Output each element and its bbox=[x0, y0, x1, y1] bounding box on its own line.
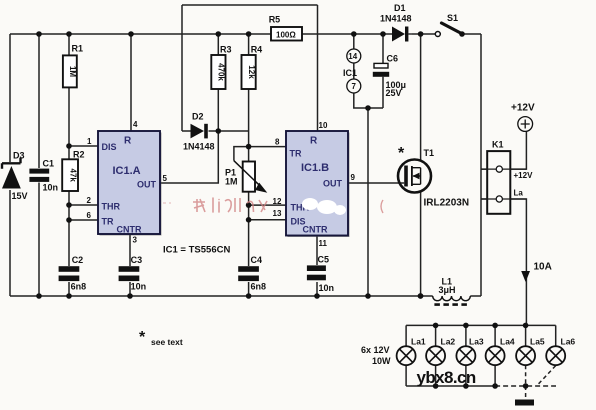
svg-text:10W: 10W bbox=[372, 356, 391, 366]
svg-text:3μH: 3μH bbox=[439, 285, 456, 295]
resistor R4 bbox=[242, 45, 263, 90]
pin numbers IC1.A bbox=[87, 120, 168, 245]
wire pin6 TR bbox=[69, 219, 98, 221]
wire C1 column bbox=[38, 34, 40, 296]
wire ground column from C6 bbox=[367, 108, 369, 296]
svg-text:+12V: +12V bbox=[514, 171, 534, 180]
svg-text:IC1 = TS556CN: IC1 = TS556CN bbox=[163, 245, 230, 256]
wire S1 to K1 feed column bbox=[480, 34, 482, 296]
see text note bbox=[139, 329, 183, 347]
svg-text:La5: La5 bbox=[530, 337, 545, 347]
svg-text:25V: 25V bbox=[386, 88, 402, 98]
svg-text:C6: C6 bbox=[387, 54, 399, 64]
lamp La6 bbox=[546, 337, 575, 366]
capacitor C2 bbox=[59, 255, 87, 292]
svg-text:THR: THR bbox=[102, 202, 121, 212]
wire pin3 CNTR to C3 bbox=[129, 235, 131, 297]
wire bottom ground rail bbox=[10, 295, 421, 297]
svg-text:C4: C4 bbox=[251, 255, 263, 265]
svg-text:R3: R3 bbox=[220, 45, 232, 55]
svg-text:ybx8.cn: ybx8.cn bbox=[417, 368, 476, 387]
svg-text:CNTR: CNTR bbox=[117, 225, 142, 235]
svg-text:R5: R5 bbox=[269, 15, 281, 25]
svg-text:R: R bbox=[124, 136, 132, 147]
svg-text:TR: TR bbox=[102, 217, 114, 227]
svg-text:C2: C2 bbox=[72, 255, 84, 265]
svg-text:12: 12 bbox=[273, 197, 282, 206]
lamp La4 bbox=[486, 337, 515, 366]
+12V supply terminal bbox=[511, 103, 535, 132]
wire R1 R2 column bbox=[68, 34, 70, 296]
svg-text:1M: 1M bbox=[225, 177, 238, 187]
capacitor C4 bbox=[238, 255, 266, 292]
IC1 power pin bubbles bbox=[343, 49, 361, 93]
svg-text:6n8: 6n8 bbox=[251, 282, 267, 292]
svg-text:1N4148: 1N4148 bbox=[183, 142, 215, 152]
inductor L1 bbox=[433, 277, 471, 305]
svg-text:1M: 1M bbox=[68, 66, 77, 77]
lamp La1 bbox=[397, 337, 426, 366]
wire pin13 DIS and C4 column bbox=[249, 205, 286, 296]
svg-text:see text: see text bbox=[151, 337, 183, 347]
svg-text:S1: S1 bbox=[447, 13, 458, 23]
wire K1 tap La bbox=[481, 199, 526, 325]
pin numbers IC1.B bbox=[273, 121, 356, 248]
svg-text:R1: R1 bbox=[72, 44, 84, 54]
svg-text:R4: R4 bbox=[251, 45, 263, 55]
wire vertical reset rail to IC1.B pin 10 bbox=[317, 5, 319, 131]
wire lamp stubs top bbox=[406, 325, 556, 346]
wire dashed to ground bbox=[525, 386, 527, 399]
svg-text:4: 4 bbox=[133, 120, 138, 129]
capacitor C1 bbox=[29, 159, 58, 193]
wire IC1.B OUT to gate bbox=[348, 182, 404, 184]
svg-text:1N4148: 1N4148 bbox=[380, 14, 412, 24]
resistor R2 bbox=[62, 149, 84, 191]
svg-text:3: 3 bbox=[133, 236, 138, 245]
wire T1 drain up bbox=[420, 34, 422, 160]
svg-text:14: 14 bbox=[348, 52, 357, 61]
svg-text:10: 10 bbox=[319, 121, 328, 130]
svg-text:D1: D1 bbox=[394, 3, 406, 13]
wire vertical from reset rail to D2 anode bbox=[181, 5, 183, 131]
svg-text:10n: 10n bbox=[319, 283, 335, 293]
wire upper reset rail bbox=[182, 4, 318, 6]
lamp bank rating label bbox=[361, 345, 391, 366]
svg-text:470k: 470k bbox=[217, 63, 226, 81]
diode D1 bbox=[380, 3, 412, 42]
svg-text:C1: C1 bbox=[43, 159, 55, 169]
op-amp IC1.A timer block bbox=[98, 131, 162, 236]
wire pin14 pin7 column bbox=[354, 34, 383, 108]
svg-text:OUT: OUT bbox=[323, 179, 343, 189]
svg-text:La2: La2 bbox=[441, 337, 456, 347]
transistor T1 MOSFET bbox=[398, 145, 469, 209]
wire pin8 TR bbox=[249, 146, 286, 148]
op-amp IC1.B timer block bbox=[286, 131, 350, 237]
svg-text:T1: T1 bbox=[424, 148, 435, 158]
watermark red marks bbox=[163, 198, 383, 213]
svg-text:6n8: 6n8 bbox=[71, 282, 87, 292]
svg-text:CNTR: CNTR bbox=[303, 225, 328, 235]
capacitor C6 electrolytic bbox=[373, 54, 406, 99]
svg-text:7: 7 bbox=[352, 82, 357, 91]
svg-text:6x 12V: 6x 12V bbox=[361, 345, 390, 355]
svg-text:K1: K1 bbox=[492, 140, 504, 150]
wire T1 source down bbox=[420, 193, 422, 297]
svg-text:*: * bbox=[139, 329, 146, 346]
junction dots middle bbox=[66, 105, 371, 223]
potentiometer P1 bbox=[225, 161, 267, 193]
lamp La5 bbox=[516, 337, 545, 366]
capacitor C3 bbox=[119, 255, 147, 292]
svg-text:13: 13 bbox=[273, 209, 282, 218]
svg-text:R: R bbox=[310, 136, 318, 147]
junction dots lamps bbox=[433, 323, 529, 389]
svg-text:6: 6 bbox=[87, 211, 92, 220]
resistor R3 bbox=[211, 45, 231, 90]
svg-text:10A: 10A bbox=[534, 262, 552, 273]
svg-text:IC1.B: IC1.B bbox=[301, 162, 329, 174]
svg-text:*: * bbox=[398, 145, 405, 162]
wire lamp stubs bottom solid bbox=[406, 365, 495, 386]
svg-text:12k: 12k bbox=[247, 65, 256, 79]
wire lamps top rail bbox=[406, 324, 556, 326]
svg-text:C3: C3 bbox=[131, 255, 143, 265]
svg-text:2: 2 bbox=[87, 196, 92, 205]
diode D2 bbox=[183, 112, 215, 152]
wire pin11 to C5 bbox=[316, 236, 318, 296]
svg-text:IRL2203N: IRL2203N bbox=[424, 198, 470, 209]
svg-text:15V: 15V bbox=[12, 191, 28, 201]
svg-text:5: 5 bbox=[163, 174, 168, 183]
svg-text:1: 1 bbox=[87, 137, 92, 146]
switch S1 bbox=[435, 13, 465, 37]
svg-text:9: 9 bbox=[351, 173, 356, 182]
zener diode D3 bbox=[2, 151, 28, 202]
resistor R1 bbox=[63, 44, 83, 88]
ground bar bbox=[515, 400, 534, 406]
watermark white blobs bbox=[302, 198, 346, 215]
svg-text:8: 8 bbox=[275, 138, 280, 147]
wire left supply column with D3 bbox=[9, 34, 11, 296]
wire La6 dashed diagonal bbox=[537, 366, 556, 386]
svg-text:+12V: +12V bbox=[511, 103, 535, 114]
svg-text:10n: 10n bbox=[131, 282, 147, 292]
svg-text:OUT: OUT bbox=[137, 180, 157, 190]
svg-text:La6: La6 bbox=[561, 337, 576, 347]
wire pin12 THR bbox=[249, 204, 286, 206]
wire IC1.A OUT to D2 node bbox=[161, 131, 219, 183]
svg-text:D3: D3 bbox=[13, 151, 25, 161]
svg-text:D2: D2 bbox=[192, 112, 204, 122]
svg-text:C5: C5 bbox=[318, 255, 330, 265]
connector K1 bbox=[481, 140, 533, 214]
wire lamps bottom rail dashed bbox=[495, 385, 556, 387]
wire P1 top and bottom leads bbox=[248, 147, 250, 206]
10A current arrow bbox=[521, 262, 552, 283]
lamp La2 bbox=[426, 337, 455, 366]
junction dots top rail bbox=[36, 31, 423, 37]
wire pin1 DIS bbox=[69, 145, 98, 147]
capacitor C5 bbox=[307, 255, 334, 294]
lamp La3 bbox=[456, 337, 484, 366]
svg-text:La4: La4 bbox=[500, 337, 515, 347]
svg-text:IC1: IC1 bbox=[343, 68, 357, 78]
svg-text:DIS: DIS bbox=[102, 142, 117, 152]
wire P1 wiper bend bbox=[234, 147, 249, 161]
junction dots bottom rail bbox=[36, 293, 423, 299]
svg-text:10n: 10n bbox=[43, 183, 59, 193]
svg-text:47k: 47k bbox=[68, 169, 77, 183]
svg-text:100Ω: 100Ω bbox=[276, 31, 296, 40]
svg-text:R2: R2 bbox=[73, 149, 85, 159]
svg-text:11: 11 bbox=[319, 239, 328, 248]
svg-text:La3: La3 bbox=[469, 337, 484, 347]
wire L1 leads bbox=[421, 295, 482, 297]
wire D2 horizontal bbox=[182, 130, 249, 132]
wire lamps bottom rail solid bbox=[406, 385, 495, 387]
wire R3 column bbox=[217, 34, 219, 131]
svg-text:La1: La1 bbox=[411, 337, 426, 347]
svg-text:IC1.A: IC1.A bbox=[113, 165, 141, 177]
wire R4 column bbox=[248, 34, 250, 147]
svg-text:La: La bbox=[514, 189, 524, 198]
wire K1 tap +12V bbox=[481, 132, 526, 170]
resistor R5 bbox=[269, 15, 302, 41]
wire pin2 THR bbox=[69, 204, 98, 206]
svg-text:TR: TR bbox=[290, 149, 302, 159]
wire pin4 R bbox=[130, 34, 132, 131]
wire La5 dashed stub bbox=[525, 365, 527, 386]
wire top rail left bbox=[10, 33, 481, 35]
